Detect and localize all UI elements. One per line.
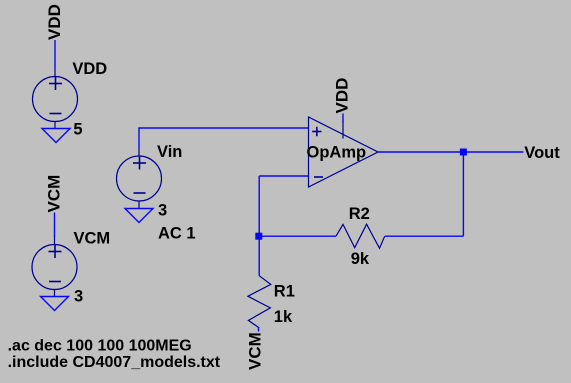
ground [41,297,69,311]
wire [259,175,308,177]
voltage source V1 (VDD) [33,69,78,129]
svg-text:VCM: VCM [45,175,64,213]
wire [258,328,260,332]
wire [54,40,56,69]
svg-text:1k: 1k [274,308,293,326]
svg-text:.ac dec 100 100 100MEG: .ac dec 100 100 100MEG [8,338,192,355]
voltage source V2 (VCM) [32,237,77,297]
svg-text:R2: R2 [349,205,370,223]
wire [462,152,464,236]
ground [42,129,70,143]
op-amp U1 [309,117,379,187]
wire [54,213,56,238]
svg-text:VCM: VCM [74,230,111,248]
svg-text:Vin: Vin [157,143,182,161]
svg-text:VDD: VDD [72,60,107,78]
svg-text:AC 1: AC 1 [158,225,196,243]
wire [385,235,463,237]
svg-text:5: 5 [73,121,82,139]
junction [460,149,467,156]
svg-text:VDD: VDD [45,4,64,40]
svg-text:VDD: VDD [333,78,352,114]
wire [258,176,260,236]
svg-text:3: 3 [158,202,167,220]
svg-text:Vout: Vout [524,144,560,162]
wire [342,114,344,123]
svg-text:OpAmp: OpAmp [307,144,367,162]
svg-text:3: 3 [74,288,83,306]
resistor R1 [248,276,271,328]
resistor R2 [336,224,385,248]
svg-text:.include CD4007_models.txt: .include CD4007_models.txt [8,354,221,371]
wire [138,127,308,129]
svg-text:VCM: VCM [246,332,265,370]
svg-text:9k: 9k [351,250,370,268]
voltage source V3 (Vin) [117,149,162,209]
wire [258,236,260,276]
wire [259,235,336,237]
wire [138,128,140,149]
wire [378,151,524,153]
svg-text:R1: R1 [274,283,295,301]
junction [255,233,262,240]
ground [125,209,153,223]
